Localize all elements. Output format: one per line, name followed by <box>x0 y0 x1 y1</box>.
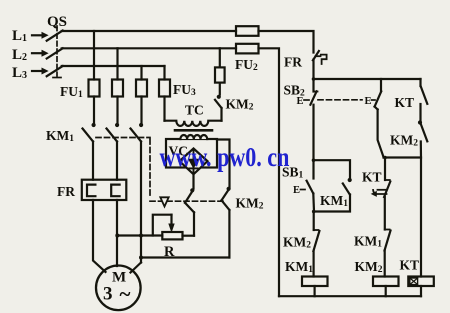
wire phase1 FR to motor <box>93 200 106 272</box>
wire parallel branch bottom <box>314 195 351 212</box>
wire KM1 NC to KM2 coil <box>384 251 386 277</box>
SB2 actuator dash <box>304 99 309 101</box>
wire KM2 aux1 to R right terminal <box>193 212 195 235</box>
resistor R (braking rheostat) <box>162 232 182 239</box>
fuse FU3 label <box>173 82 196 98</box>
wire SB2 NO down to KM2 coil branch <box>378 110 384 158</box>
motor M 3-phase <box>96 266 141 311</box>
svg-text:FR: FR <box>57 184 75 199</box>
pushbutton SB1 label <box>282 165 304 181</box>
time relay KT coil label <box>400 258 420 273</box>
contactor KM1 main contact pole3 <box>131 129 142 142</box>
svg-text:KM2: KM2 <box>355 259 383 275</box>
wire L2 incoming with arrow <box>32 51 48 56</box>
wire phase2 FR to motor <box>116 200 118 266</box>
wire parallel branch top <box>314 160 352 182</box>
pushbutton SB2 actuator E <box>297 96 304 107</box>
wire KM1 coil to bottom rail <box>314 286 316 296</box>
motor M label <box>103 270 131 307</box>
contactor KM2 NC label <box>283 235 311 251</box>
wire R left terminal to phase2 <box>115 234 162 238</box>
switch QS linkage (dashed) <box>53 26 61 78</box>
resistor R slider tap bracket <box>153 215 174 236</box>
svg-text:KM1: KM1 <box>46 128 74 144</box>
wire FU2a to control hot rail <box>259 31 314 53</box>
time relay KT delayed NC contact <box>384 158 390 198</box>
wire control bottom rail <box>279 295 421 297</box>
contactor KM2 aux contact 1 (braking) <box>185 192 194 213</box>
wire FU1a to KM1 pole1 <box>92 97 96 128</box>
switch QS label <box>47 14 67 30</box>
time relay KT contact label <box>362 170 382 185</box>
contactor KM1 NC interlock contact <box>385 230 391 251</box>
svg-text:KT: KT <box>395 95 415 110</box>
contactor KM2 NO contact (right) <box>421 124 428 141</box>
time relay KT coil <box>408 277 434 287</box>
contactor KM1 coil <box>302 277 328 287</box>
pushbutton SB2 label <box>284 83 306 99</box>
node L2 label <box>12 47 27 63</box>
KM2 aux linkage (dashed) with release symbol <box>150 200 226 202</box>
svg-text:KM2: KM2 <box>390 133 418 149</box>
fuse FU2 label <box>235 57 258 73</box>
svg-text:KM2: KM2 <box>283 235 311 251</box>
fuse FU1 phase B <box>112 80 123 97</box>
node L1 label <box>12 28 27 44</box>
wire FU3 to transformer TC primary <box>163 97 165 121</box>
wire KT delayed to KM1 NC <box>384 197 386 230</box>
thermal relay FR heater element <box>82 180 127 200</box>
svg-text:E: E <box>293 185 300 196</box>
svg-text:KM2: KM2 <box>226 97 254 113</box>
wire drop L3 to FU1c <box>140 66 142 80</box>
svg-text:KT: KT <box>362 170 382 185</box>
wire phase1 KM1 to FR <box>92 142 94 180</box>
svg-text:L2: L2 <box>12 47 27 63</box>
SB2 linkage dashed to NO contact <box>318 99 362 101</box>
SB1 actuator dash <box>301 189 306 191</box>
wire FU1c to KM1 pole3 <box>139 97 143 128</box>
wire FU2b to control left rail <box>259 48 280 296</box>
mechanical release triangle <box>160 197 168 206</box>
svg-text:KM1: KM1 <box>320 193 348 209</box>
contactor KM1 NC label <box>354 234 382 250</box>
svg-text:KM2: KM2 <box>236 196 264 212</box>
contactor KM2 (TC) label <box>226 97 254 113</box>
svg-text:KT: KT <box>400 258 420 273</box>
fuse FU2 vertical (control of TC) <box>215 67 225 82</box>
contactor KM1 aux NO contact (self-hold) <box>343 184 350 195</box>
wire phase2 KM1 to FR <box>116 142 118 180</box>
contactor KM1 coil label <box>285 259 313 275</box>
contactor KM2 coil label <box>355 259 383 275</box>
pushbutton SB2 NO actuator E <box>365 96 372 107</box>
time relay KT NO contact (top right) <box>421 79 428 104</box>
wire R right terminal <box>183 235 195 237</box>
switch QS pole 3 <box>47 66 63 76</box>
wire KM2-branch horizontal <box>383 156 421 160</box>
wire phase3 into motor <box>131 263 142 273</box>
fuse FU2b (control from L2) <box>236 44 259 54</box>
wire KT NO to KM2 NO <box>418 104 422 125</box>
KT delay symbol (semicircle) <box>372 190 387 196</box>
contactor KM2 coil <box>373 277 399 287</box>
contactor KM2 contact (TC primary) <box>215 95 222 108</box>
time relay KT label <box>395 95 415 110</box>
wire bus L2 <box>62 47 236 49</box>
fuse FU1 phase A <box>89 80 100 97</box>
switch QS pole 2 <box>47 48 63 58</box>
rectifier VC bridge diamond <box>180 149 208 175</box>
wire KM2 NO down right rail to KT coil <box>420 142 422 277</box>
wire L1 incoming with arrow <box>32 33 48 38</box>
wire KM2 aux2 down <box>228 210 230 258</box>
wire KT coil to bottom rail <box>420 286 422 296</box>
contactor KM2 aux contact 2 (braking) <box>222 190 230 210</box>
rectifier VC label <box>169 144 189 159</box>
svg-text:FU2: FU2 <box>235 57 258 73</box>
svg-text:3: 3 <box>103 284 113 305</box>
thermal relay FR label <box>57 184 75 199</box>
wire KM2 coil to bottom rail <box>385 286 387 296</box>
dashed link KM1 to KM2 aux group <box>149 139 151 199</box>
node L3 label <box>12 65 27 81</box>
wire L3 incoming with arrow <box>32 68 48 73</box>
resistor R label <box>164 244 175 260</box>
svg-text:TC: TC <box>185 103 204 118</box>
contactor KM1 linkage (dashed) <box>96 137 150 139</box>
wire FU1b to KM1 pole2 <box>115 97 119 128</box>
wire KM2 NC to KM1 coil <box>313 251 315 277</box>
wire SB1 junction down to KM2 NC <box>312 210 316 230</box>
rectifier VC diode <box>189 151 198 173</box>
svg-text:FR: FR <box>284 55 302 70</box>
switch QS pole 1 <box>47 31 63 41</box>
contactor KM1 aux label <box>320 193 348 209</box>
pushbutton SB1 actuator E <box>293 185 300 196</box>
wire VC output down <box>190 174 194 192</box>
wire phase3 KM1 down <box>140 142 142 263</box>
wire bus L3 <box>62 65 165 67</box>
contactor KM2 NO label <box>390 133 418 149</box>
wire fuse FU2c to KM2 contact <box>219 83 221 95</box>
rectifier VC box <box>166 139 217 168</box>
svg-text:L3: L3 <box>12 65 27 81</box>
fuse FU1 label <box>60 84 83 100</box>
svg-text:E: E <box>365 96 372 107</box>
wire control top rail <box>314 78 421 80</box>
pushbutton SB2 NO contact <box>375 79 382 110</box>
transformer TC core <box>175 129 212 132</box>
wire SB2 to SB1 junction <box>312 105 316 162</box>
svg-text:~: ~ <box>120 282 131 306</box>
svg-text:FU3: FU3 <box>173 82 196 98</box>
contactor KM2 NC interlock contact <box>313 230 319 251</box>
wire L3 drop to FU3 <box>163 66 165 80</box>
svg-text:FU1: FU1 <box>60 84 83 100</box>
svg-text:E: E <box>297 96 304 107</box>
fuse FU1 phase C <box>136 80 147 97</box>
wire fuse FU2c tap from L2 <box>219 48 221 67</box>
SB2 NO actuator dash <box>372 99 376 101</box>
contactor KM2 aux label <box>236 196 264 212</box>
wire drop L2 to FU1b <box>116 48 118 79</box>
thermal relay FR contact label <box>284 55 302 70</box>
svg-text:L1: L1 <box>12 28 27 44</box>
wire bus L1 <box>62 30 236 32</box>
fuse FU2a (control from L1) <box>236 26 259 36</box>
wire VC right side down to KM2 aux2 <box>217 140 231 191</box>
wire TC primary right to KM2 top contact <box>220 108 222 121</box>
svg-text:QS: QS <box>47 14 67 30</box>
contactor KM1 main contact pole1 <box>83 129 94 142</box>
wire bottom link phase3 to KM2 aux2 <box>139 256 229 260</box>
watermark www.pw0.cn <box>160 143 290 173</box>
transformer TC primary winding <box>165 121 222 126</box>
contactor KM1 main contact pole2 <box>107 129 118 142</box>
wire drop L1 to FU1a <box>93 31 95 80</box>
thermal relay FR NC contact <box>313 51 327 64</box>
fuse FU3 <box>159 80 170 97</box>
pushbutton SB2 NC (stop) <box>310 79 317 105</box>
svg-text:KM1: KM1 <box>285 259 313 275</box>
pushbutton SB1 NO (start) <box>307 160 314 211</box>
transformer TC secondary winding <box>180 135 207 139</box>
svg-text:KM1: KM1 <box>354 234 382 250</box>
svg-text:www. pw0. cn: www. pw0. cn <box>160 143 290 173</box>
wire FR to rail node <box>312 60 316 81</box>
contactor KM1 label <box>46 128 74 144</box>
transformer TC label <box>185 103 204 118</box>
